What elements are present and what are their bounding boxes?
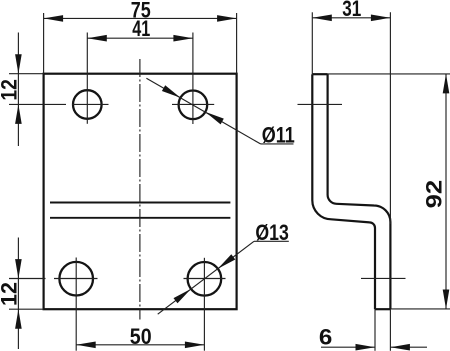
- hole top-right Ø11: [179, 91, 208, 120]
- hole top-left Ø11: [73, 90, 102, 119]
- side view top hole center line: [298, 103, 343, 105]
- svg-text:41: 41: [132, 16, 150, 41]
- leader Ø11 (through top-right hole): [146, 78, 260, 144]
- svg-text:6: 6: [319, 325, 332, 350]
- side view bottom hole center line: [361, 277, 406, 279]
- hole bottom-right center cross: [184, 258, 226, 351]
- svg-text:12: 12: [0, 282, 22, 306]
- plate outline (front view): [44, 74, 237, 310]
- svg-text:50: 50: [130, 324, 152, 349]
- dimension 50: [76, 344, 204, 346]
- leader Ø13 (through bottom-right hole): [158, 241, 254, 314]
- hole bottom-left center cross: [9, 258, 98, 351]
- svg-text:92: 92: [422, 180, 447, 209]
- side view bottom edge: [375, 308, 390, 310]
- side view top edge: [312, 73, 327, 75]
- dimension 12 bottom-left: [9, 238, 44, 350]
- vertical center line (front view): [139, 59, 141, 320]
- dimension 75: [44, 13, 237, 74]
- svg-text:Ø11: Ø11: [262, 122, 295, 147]
- hole top-left center cross: [9, 33, 109, 124]
- svg-text:31: 31: [342, 0, 361, 21]
- dimension 12 top-left: [9, 33, 44, 147]
- hole bottom-right Ø13: [188, 262, 222, 296]
- side view Z-profile outer contour: [312, 74, 375, 309]
- svg-text:Ø13: Ø13: [255, 220, 288, 245]
- bend line lower (front view): [50, 217, 230, 219]
- dimension 41: [87, 37, 193, 39]
- dimension 92: [328, 74, 450, 309]
- svg-text:12: 12: [0, 79, 22, 101]
- side view Z-profile inner contour: [328, 74, 391, 309]
- bend line upper (front view): [50, 202, 230, 204]
- dimension 31: [312, 12, 390, 224]
- hole top-right center cross: [172, 33, 214, 125]
- hole bottom-left Ø13: [59, 262, 93, 296]
- dimension 6: [321, 309, 427, 351]
